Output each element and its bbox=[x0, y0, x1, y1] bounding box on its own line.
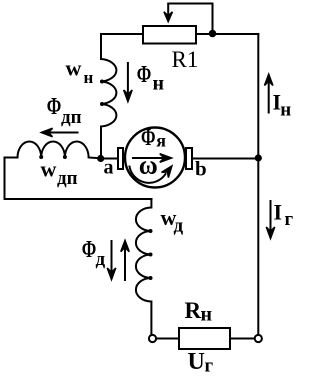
svg-text:дп: дп bbox=[57, 168, 78, 189]
svg-text:Ф: Ф bbox=[141, 125, 156, 151]
arrow F_d up bbox=[124, 245, 126, 280]
wire terminal to R_n box bbox=[157, 338, 179, 340]
arrow F_d down bbox=[111, 241, 113, 275]
label F_d bbox=[82, 237, 106, 270]
label F_dp bbox=[47, 94, 82, 128]
label F_n bbox=[137, 62, 164, 95]
wire rheostat wiper bypass bbox=[168, 4, 212, 31]
wire top rail left segment bbox=[101, 34, 143, 59]
svg-text:ω: ω bbox=[139, 151, 158, 180]
svg-text:w: w bbox=[66, 56, 82, 81]
left brush bbox=[118, 148, 123, 169]
coil w_d joint blobs bbox=[149, 229, 153, 233]
label w_n bbox=[66, 56, 94, 88]
arrow flux F_ya right bbox=[133, 157, 166, 159]
svg-text:н: н bbox=[84, 68, 94, 87]
coil w_dp joint blobs bbox=[39, 155, 43, 159]
label w_d bbox=[161, 205, 184, 237]
terminal circle right bbox=[255, 335, 262, 342]
label I_n bbox=[273, 90, 292, 121]
svg-text:a: a bbox=[104, 157, 114, 179]
svg-text:R1: R1 bbox=[172, 47, 199, 72]
svg-text:я: я bbox=[156, 131, 166, 151]
armature circle (machine) bbox=[125, 128, 185, 188]
arrow flux F_n down bbox=[127, 63, 129, 97]
resistor R_n box bbox=[179, 328, 230, 349]
arrow I_g down bbox=[270, 201, 272, 233]
svg-text:дп: дп bbox=[61, 107, 82, 128]
label I_g bbox=[274, 200, 294, 231]
arrow I_n up bbox=[268, 79, 270, 113]
label F_ya inside armature bbox=[141, 125, 166, 151]
coil w_n (shunt field winding) bbox=[101, 59, 116, 159]
coil w_n joint blobs bbox=[100, 80, 104, 84]
svg-text:I: I bbox=[274, 200, 283, 225]
wire left vertical bbox=[4, 158, 6, 200]
svg-text:д: д bbox=[174, 216, 184, 237]
svg-text:b: b bbox=[195, 157, 207, 181]
wire node a to left brush bbox=[104, 158, 118, 160]
svg-text:U: U bbox=[188, 349, 205, 375]
junction dot right rail bbox=[255, 154, 262, 161]
svg-text:г: г bbox=[205, 356, 214, 377]
arrow flux F_dp left bbox=[48, 132, 78, 134]
svg-text:д: д bbox=[96, 249, 106, 270]
svg-text:Ф: Ф bbox=[47, 94, 62, 120]
node a junction dot bbox=[97, 155, 104, 162]
label w_dp bbox=[41, 157, 78, 190]
svg-text:Ф: Ф bbox=[137, 62, 152, 88]
terminal circle left bbox=[149, 335, 156, 342]
svg-text:w: w bbox=[41, 157, 57, 182]
svg-text:н: н bbox=[201, 304, 213, 326]
rotation arc arrow bbox=[130, 167, 166, 183]
wire R_n to right terminal bbox=[230, 338, 254, 340]
wire b to right rail bbox=[192, 158, 258, 160]
wiper arrowhead on R1 bbox=[164, 12, 172, 22]
wire right rail vertical bbox=[257, 34, 259, 334]
svg-text:н: н bbox=[153, 73, 165, 95]
label R_n bbox=[185, 298, 213, 326]
coil w_d (series winding) bbox=[136, 199, 152, 334]
resistor R1 (rheostat box) bbox=[143, 26, 196, 44]
wire bottom left horizontal bbox=[5, 198, 152, 200]
junction dot top right bbox=[209, 30, 217, 38]
wire R1 to right rail corner bbox=[196, 33, 258, 35]
coil w_dp (commutating winding) bbox=[5, 142, 101, 159]
svg-text:г: г bbox=[285, 209, 294, 230]
right brush bbox=[186, 148, 192, 169]
label U_g bbox=[188, 349, 214, 377]
svg-text:R: R bbox=[185, 298, 202, 323]
svg-text:н: н bbox=[280, 99, 291, 120]
svg-text:Ф: Ф bbox=[82, 237, 97, 263]
